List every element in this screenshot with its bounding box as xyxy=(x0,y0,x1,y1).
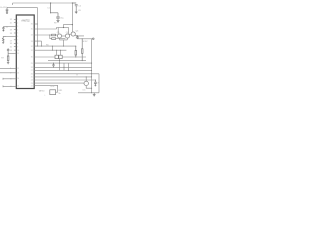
transistor Q3 xyxy=(71,32,75,36)
svg-text:1: 1 xyxy=(17,19,18,21)
wire output vertical xyxy=(91,39,93,93)
transistor Q4 (bottom right) xyxy=(84,81,88,85)
wire pin stub left p1 xyxy=(14,18,16,20)
svg-text:15: 15 xyxy=(17,86,19,88)
junction dots xyxy=(37,2,96,93)
potentiometer VR1 (bottom centre box) xyxy=(56,86,58,93)
wire bottom rail xyxy=(78,92,99,94)
resistor R8 (vertical right) xyxy=(75,46,77,57)
node B+ vertical feed xyxy=(71,3,73,25)
svg-text:4.7k: 4.7k xyxy=(51,86,55,88)
wire top rail B xyxy=(7,6,37,8)
wire pin left p14 connector xyxy=(3,78,16,80)
wire pin stub left p7 xyxy=(14,39,16,41)
ground (bottom right) xyxy=(93,93,96,96)
wire pin left p11 to RC network xyxy=(8,52,16,54)
svg-text:3: 3 xyxy=(17,26,18,28)
ground (left network) xyxy=(7,62,9,64)
wire Q3 base feed xyxy=(69,33,72,35)
wire pin right q11 long xyxy=(34,69,91,71)
transistor Q2 xyxy=(65,34,69,38)
wire emitters join xyxy=(60,38,68,46)
wire pin right q3 (base Q1 via R3) xyxy=(34,34,51,36)
capacitor C6 (between q9 and q10 wires) xyxy=(52,63,54,67)
svg-text:36: 36 xyxy=(31,24,33,26)
wire pin right q12 long xyxy=(34,74,99,93)
svg-text:24: 24 xyxy=(31,80,33,82)
wire pin right q8 (to R5 box) xyxy=(34,56,55,58)
svg-text:34: 34 xyxy=(31,35,33,37)
svg-text:5k: 5k xyxy=(58,93,60,95)
wire pin left p15 connector xyxy=(3,85,16,87)
svg-text:B+12V: B+12V xyxy=(0,7,7,9)
IC U1 package outline xyxy=(16,15,34,89)
capacitor C2 (B+ decoupling, right of x=72.4) xyxy=(72,3,77,9)
wire pin left p6 to R1 xyxy=(6,35,16,37)
svg-text:10: 10 xyxy=(17,50,19,52)
wire output lower line xyxy=(77,38,92,40)
wire bus right of IC xyxy=(36,7,38,46)
svg-text:7: 7 xyxy=(17,40,18,42)
svg-text:2: 2 xyxy=(17,22,18,24)
wire pin right q16 xyxy=(34,85,57,87)
wire pin stub left p4 xyxy=(14,29,16,31)
wire pin right q14 xyxy=(34,79,95,81)
resistor R5 R6 pair xyxy=(55,55,58,58)
wire pin right q15 xyxy=(34,82,84,84)
wire rail of push-pull collectors xyxy=(58,27,68,29)
svg-text:TA760: TA760 xyxy=(39,90,46,93)
wire pin right q6 long xyxy=(34,45,76,47)
svg-text:22: 22 xyxy=(31,85,33,87)
svg-text:M 9V: M 9V xyxy=(83,41,88,43)
capacitor C4 (left network top) xyxy=(7,48,9,53)
svg-text:32: 32 xyxy=(31,46,33,48)
node rail A left terminal xyxy=(12,3,14,5)
svg-text:13: 13 xyxy=(17,73,19,75)
wire pin stub left p2 xyxy=(14,22,16,24)
ground (under C2) xyxy=(75,9,78,14)
svg-text:8: 8 xyxy=(17,43,18,45)
svg-text:30: 30 xyxy=(31,57,33,59)
svg-text:31: 31 xyxy=(31,50,33,52)
wire long mid q8b xyxy=(48,60,86,62)
capacitor C7 (bottom right) xyxy=(94,80,97,86)
wire pin right q7 long xyxy=(34,49,66,51)
resistor R2 (left network) xyxy=(7,53,9,62)
wire pin right q9 long xyxy=(34,62,91,64)
wire base Q2 via R4 xyxy=(50,35,52,39)
capacitor C3 (far left) xyxy=(2,27,4,32)
svg-text:6: 6 xyxy=(17,36,18,38)
svg-text:9: 9 xyxy=(17,46,18,48)
wire pin left p12 long xyxy=(0,67,16,69)
wire pin right q1 (to bus) xyxy=(34,23,37,25)
resistor R1 (far left vertical) xyxy=(2,36,6,43)
resistor R3 xyxy=(52,34,56,36)
svg-text:33: 33 xyxy=(31,41,33,43)
wire inner bases tick xyxy=(62,35,66,37)
svg-text:27: 27 xyxy=(31,70,33,72)
wire verticals mid cluster xyxy=(52,46,68,70)
wire pin stub left p9 xyxy=(14,46,16,48)
svg-text:35: 35 xyxy=(31,29,33,31)
transistor Q1 xyxy=(57,34,61,38)
resistor R4 xyxy=(52,38,56,40)
text labels (tiny) xyxy=(0,5,99,96)
pin numbers inside package xyxy=(17,19,33,88)
wire pin right q13 long xyxy=(34,76,91,78)
wire pin stub left p10 xyxy=(14,49,16,51)
wire pin right q2 xyxy=(34,28,58,30)
wire pin stub left p8 xyxy=(14,42,16,44)
wire pin stub left p5 xyxy=(14,32,16,34)
svg-text:AN6752: AN6752 xyxy=(21,19,30,22)
svg-text:28: 28 xyxy=(31,67,33,69)
svg-text:14: 14 xyxy=(17,78,19,80)
wire pin right q10 long xyxy=(34,66,91,68)
svg-text:29: 29 xyxy=(31,63,33,65)
wire pin right q5 xyxy=(34,41,41,46)
wire Q3 emitter to output xyxy=(75,34,84,37)
svg-text:5: 5 xyxy=(17,33,18,35)
capacitor C1 (from rail A to ground, x=50.6) xyxy=(51,3,60,22)
wire pin left p13 long xyxy=(0,72,16,74)
svg-text:25: 25 xyxy=(31,77,33,79)
wire pin left p3 to C3 xyxy=(3,26,16,28)
svg-text:11: 11 xyxy=(17,53,19,55)
svg-text:12: 12 xyxy=(17,68,19,70)
capacitor C8 (top-left, at rail B left end) xyxy=(6,7,9,13)
capacitor C5 (between output lines) xyxy=(76,36,79,39)
svg-text:26: 26 xyxy=(31,74,33,76)
resistor R10 (from output node down) xyxy=(81,39,83,61)
node output terminal M xyxy=(93,38,95,40)
svg-text:4: 4 xyxy=(17,29,18,31)
wire top rail A xyxy=(13,2,73,4)
wire B+ to rail xyxy=(64,25,73,28)
